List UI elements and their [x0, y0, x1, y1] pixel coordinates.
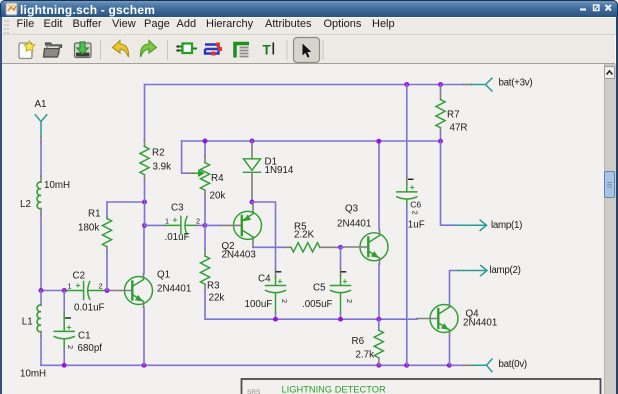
- wire: Q3 emitter down: [378, 264, 380, 319]
- capacitor C1: [54, 313, 74, 350]
- wire: C6 bottom to rail: [406, 206, 408, 365]
- junction (R5/C5/Q3 base): [338, 245, 343, 250]
- svg-text:C5: C5: [313, 283, 326, 294]
- junction (C3/R3/R4/Q2 node): [203, 223, 208, 228]
- wire: Q1 emitter down: [143, 308, 145, 366]
- svg-text:180k: 180k: [78, 223, 99, 234]
- terminal lamp(2): [458, 266, 487, 276]
- toolbar button: open: [44, 43, 62, 57]
- toolbar button: select (active): [294, 38, 320, 63]
- junction (C3 net): [142, 223, 147, 228]
- svg-text:bat(+3v): bat(+3v): [499, 78, 533, 89]
- transistor Q3: [344, 230, 389, 265]
- transistor Q1: [110, 274, 153, 308]
- wire: C6 top: [406, 85, 408, 177]
- antenna A1: [35, 115, 46, 137]
- svg-text:2N4401: 2N4401: [337, 219, 371, 230]
- wire: Q4 emitter down: [449, 336, 451, 365]
- svg-text:2: 2: [410, 211, 419, 215]
- svg-text:Q1: Q1: [157, 270, 170, 281]
- svg-text:C4: C4: [258, 274, 271, 285]
- svg-text:1uF: 1uF: [408, 220, 425, 231]
- svg-text:bat(0v): bat(0v): [499, 359, 527, 370]
- wire: Q1 collector up: [143, 225, 145, 273]
- junction (C6/rail): [404, 363, 409, 368]
- svg-text:lamp(2): lamp(2): [490, 265, 521, 276]
- wire: node to C2: [41, 290, 67, 292]
- toolbar button: redo (green arrow): [140, 41, 156, 58]
- window buttons: minimize, restore, close: [567, 0, 613, 17]
- wire: R1 top to R2 line: [107, 201, 145, 203]
- pin (C6 top): [406, 177, 408, 185]
- svg-text:A1: A1: [35, 99, 47, 110]
- resistor R2: [140, 85, 149, 226]
- toolbar separator: [323, 40, 324, 60]
- wire: C5 bottom: [340, 313, 342, 319]
- tool bar: [2, 35, 615, 64]
- junction (R7 bottom/lamp1): [438, 139, 443, 144]
- toolbar separator: [100, 40, 101, 60]
- wire: L2 to C2 node: [40, 214, 42, 290]
- toolbar separator: [287, 40, 288, 60]
- svg-text:T: T: [263, 43, 272, 58]
- junction (D1/Q2/C4 node): [250, 200, 255, 205]
- junction (Q3 emitter/R6/rail): [376, 317, 381, 322]
- svg-text:1: 1: [165, 217, 169, 226]
- svg-text:47R: 47R: [450, 123, 468, 134]
- window title bar: [0, 0, 618, 17]
- title block box: [242, 379, 601, 394]
- svg-text:LIGHTNING DETECTOR: LIGHTNING DETECTOR: [282, 385, 386, 394]
- svg-text:C3: C3: [171, 203, 184, 214]
- svg-text:10mH: 10mH: [44, 180, 70, 191]
- svg-text:2: 2: [345, 299, 354, 303]
- wire: Q3 collector up: [378, 142, 380, 230]
- svg-text:C1: C1: [78, 331, 91, 342]
- wire: C3 to node: [197, 224, 206, 226]
- wire: lamp(2) from Q4 collector: [450, 271, 459, 307]
- toolbar separator: [167, 40, 168, 60]
- toolbar button: add net: [205, 43, 222, 56]
- svg-text:+: +: [76, 280, 81, 290]
- svg-text:+: +: [173, 215, 178, 225]
- svg-text:2N4401: 2N4401: [463, 318, 497, 329]
- svg-text:R4: R4: [211, 173, 224, 184]
- svg-text:Q3: Q3: [345, 204, 359, 215]
- svg-text:1N914: 1N914: [265, 165, 294, 176]
- pin number 1 rotated (C5): [341, 271, 345, 273]
- junction (Q1 emitter/rail): [142, 363, 147, 368]
- inductor L1: [37, 291, 41, 337]
- resistor R6: [374, 319, 383, 365]
- svg-text:.005uF: .005uF: [302, 299, 333, 310]
- junction (C6 top rail): [404, 82, 409, 87]
- svg-text:C6: C6: [410, 200, 421, 210]
- pin (antenna): [40, 137, 42, 143]
- wire: L1 to ground rail: [40, 336, 42, 365]
- scrollbar: [604, 64, 616, 394]
- window title text: [20, 3, 155, 17]
- terminal bat(0v): [464, 359, 492, 372]
- wire: Q2 collector to R5: [253, 246, 285, 248]
- junction (R6/rail): [376, 363, 381, 368]
- svg-text:2.2K: 2.2K: [294, 230, 315, 241]
- svg-text:+: +: [278, 276, 283, 286]
- wire: node to C4: [252, 202, 276, 270]
- junction (Q3 collector net): [376, 139, 381, 144]
- svg-text:+: +: [343, 276, 348, 286]
- svg-text:L1: L1: [22, 317, 33, 328]
- toolbar button: new file: [19, 41, 35, 59]
- window borders: [0, 17, 2, 394]
- wire: pot wiper feedback: [182, 141, 188, 173]
- svg-text:2: 2: [196, 217, 200, 226]
- wire: lamp(1) drop: [441, 141, 457, 225]
- svg-text:L2: L2: [20, 199, 31, 210]
- transistor Q4: [417, 305, 458, 337]
- svg-text:1: 1: [68, 282, 72, 291]
- svg-text:C2: C2: [73, 271, 86, 282]
- junction (C1/rail): [62, 363, 67, 368]
- junction (antenna/C2): [39, 288, 44, 293]
- wire: C3 net horizontal: [145, 224, 166, 226]
- resistor R3: [200, 250, 209, 291]
- terminal bat(+3v): [463, 78, 492, 91]
- junction (R4 top): [203, 139, 208, 144]
- pin number 1 rotated (C1): [66, 317, 71, 319]
- capacitor C3: [165, 216, 197, 234]
- wire: C1 bottom: [63, 350, 65, 366]
- svg-text:3.9k: 3.9k: [153, 162, 172, 173]
- wire: R3 down from node: [204, 225, 206, 249]
- capacitor C2: [67, 282, 105, 300]
- svg-text:+: +: [67, 322, 72, 332]
- toolbar button: add text: [263, 43, 275, 58]
- svg-text:2.7k: 2.7k: [356, 350, 375, 361]
- svg-text:20k: 20k: [210, 191, 226, 202]
- resistor R1: [102, 202, 111, 291]
- svg-text:R2: R2: [152, 148, 165, 159]
- svg-text:lamp(1): lamp(1): [491, 220, 522, 231]
- toolbar button: add component: [177, 44, 198, 54]
- capacitor C5: [331, 275, 351, 313]
- toolbar button: undo (yellow arrow): [113, 41, 129, 58]
- terminal lamp(1): [456, 220, 487, 230]
- window icon: [5, 2, 23, 19]
- resistor R5: [285, 243, 341, 252]
- wire: C1 top: [63, 291, 65, 314]
- svg-text:R1: R1: [88, 209, 101, 220]
- svg-text:R3: R3: [207, 281, 220, 292]
- svg-text:2N4401: 2N4401: [157, 284, 191, 295]
- wire: R3 to mid ground rail: [205, 291, 417, 320]
- potentiometer R4: [188, 141, 210, 225]
- wire: junction to Q3 base: [341, 246, 344, 248]
- junction (C5/rail): [338, 317, 343, 322]
- svg-text:R6: R6: [352, 336, 365, 347]
- junction (Q4 emitter/rail): [447, 363, 452, 368]
- svg-text:100uF: 100uF: [245, 299, 273, 310]
- svg-text:2N4403: 2N4403: [222, 250, 257, 261]
- pin number 1 rotated (C6): [409, 178, 413, 180]
- wire: Q2 base from node: [205, 224, 220, 226]
- wire: C4 bottom: [275, 313, 277, 319]
- svg-text:2: 2: [66, 345, 75, 349]
- toolbar button: save: [75, 42, 92, 58]
- transistor Q2 (PNP): [220, 203, 262, 248]
- wire: C2 to Q1 base: [105, 290, 110, 292]
- junction (R7 top): [438, 82, 443, 87]
- junction (R1 net): [142, 200, 147, 205]
- svg-text:2: 2: [99, 282, 103, 291]
- capacitor C6: [397, 184, 417, 206]
- svg-text:.01uF: .01uF: [165, 232, 190, 243]
- pin number 1 rotated (C4): [276, 271, 280, 273]
- svg-text:22k: 22k: [209, 293, 225, 304]
- svg-text:SRS: SRS: [247, 389, 261, 394]
- toolbar button: add bus: [235, 44, 249, 58]
- wire: C5 top: [340, 247, 342, 268]
- junction (C1 branch): [62, 288, 67, 293]
- svg-text:+: +: [410, 182, 415, 192]
- svg-text:0.01uF: 0.01uF: [74, 303, 105, 314]
- inductor L2: [37, 176, 41, 214]
- svg-text:680pf: 680pf: [78, 343, 103, 354]
- resistor R7: [436, 85, 445, 142]
- svg-text:R7: R7: [447, 110, 460, 121]
- svg-text:2: 2: [280, 299, 289, 303]
- menu bar: [2, 17, 616, 35]
- junction (R1/Q1 base): [105, 288, 110, 293]
- wire: main mid rail y141: [182, 140, 441, 142]
- diode D1: [244, 141, 261, 199]
- wire: +3v top rail: [145, 84, 464, 86]
- junction (C4/rail): [273, 317, 278, 322]
- pin (C5 top): [340, 268, 342, 275]
- wire: antenna to L2: [40, 143, 42, 177]
- wire: bottom 0v rail: [41, 364, 464, 366]
- svg-text:10mH: 10mH: [20, 369, 46, 380]
- junction (D1 top): [250, 139, 255, 144]
- capacitor C4: [266, 277, 286, 313]
- pin (C4 top): [275, 270, 277, 277]
